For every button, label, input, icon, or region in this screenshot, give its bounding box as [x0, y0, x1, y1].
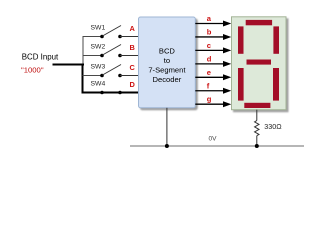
segment f [238, 26, 244, 53]
segment b [273, 26, 279, 53]
svg-text:SW1: SW1 [91, 25, 106, 32]
wire resistor to 0V [256, 136, 258, 146]
segment e [238, 68, 244, 101]
segment c [273, 68, 279, 101]
decoder U1 box [139, 17, 196, 108]
svg-text:c: c [207, 41, 211, 50]
wire output a with arrow [195, 14, 231, 27]
segment g [247, 60, 272, 65]
svg-text:SW2: SW2 [91, 44, 106, 51]
wire 0V rail [130, 145, 304, 147]
svg-text:C: C [130, 63, 136, 72]
node junction decoder-0V [165, 144, 169, 148]
wire branch to SW2 [83, 55, 103, 57]
wire output e with arrow [195, 68, 231, 81]
resistor R1 330 ohm [255, 121, 283, 136]
segment a [246, 20, 272, 25]
svg-text:f: f [207, 81, 210, 90]
wire branch to SW4 thick [82, 92, 102, 94]
segment d [244, 103, 270, 108]
switch SW4 closed [91, 81, 139, 95]
wire output d with arrow [195, 54, 231, 67]
wire output c with arrow [195, 41, 231, 54]
svg-text:330Ω: 330Ω [264, 122, 282, 131]
svg-text:SW4: SW4 [91, 81, 106, 88]
svg-text:to: to [164, 56, 170, 65]
wire output g with arrow [195, 95, 231, 108]
wire output b with arrow [195, 27, 231, 40]
svg-text:Decoder: Decoder [153, 75, 182, 84]
svg-text:d: d [207, 54, 212, 63]
svg-text:0V: 0V [209, 136, 218, 143]
svg-text:7-Segment: 7-Segment [148, 66, 186, 75]
switch SW3 [91, 64, 122, 78]
wire SW2 to decoder B [120, 55, 139, 57]
svg-text:BCD Input: BCD Input [22, 53, 59, 62]
svg-text:a: a [207, 14, 212, 23]
wire SW1 to decoder A [120, 36, 139, 38]
svg-text:A: A [130, 24, 136, 33]
svg-text:SW3: SW3 [91, 64, 106, 71]
wire bus vertical thick (lower) [82, 64, 84, 94]
svg-text:D: D [130, 80, 136, 89]
7-segment display U2 [232, 17, 287, 110]
svg-text:b: b [207, 27, 212, 36]
wire branch to SW1 [83, 36, 103, 38]
wire SW3 to decoder C [120, 75, 139, 77]
node junction resistor-0V [255, 144, 259, 148]
wire branch to SW3 [83, 75, 103, 77]
svg-text:"1000": "1000" [21, 66, 44, 75]
wire bus vertical thin (upper) [82, 37, 84, 65]
wire output f with arrow [195, 81, 231, 94]
svg-text:B: B [130, 43, 135, 52]
wire display to resistor [256, 110, 258, 121]
switch SW2 [91, 44, 122, 58]
switch SW1 [91, 25, 122, 39]
wire decoder ground [166, 108, 168, 146]
svg-text:BCD: BCD [159, 47, 176, 56]
svg-text:g: g [207, 95, 212, 104]
svg-text:e: e [207, 68, 211, 77]
wire input horizontal [53, 64, 85, 66]
